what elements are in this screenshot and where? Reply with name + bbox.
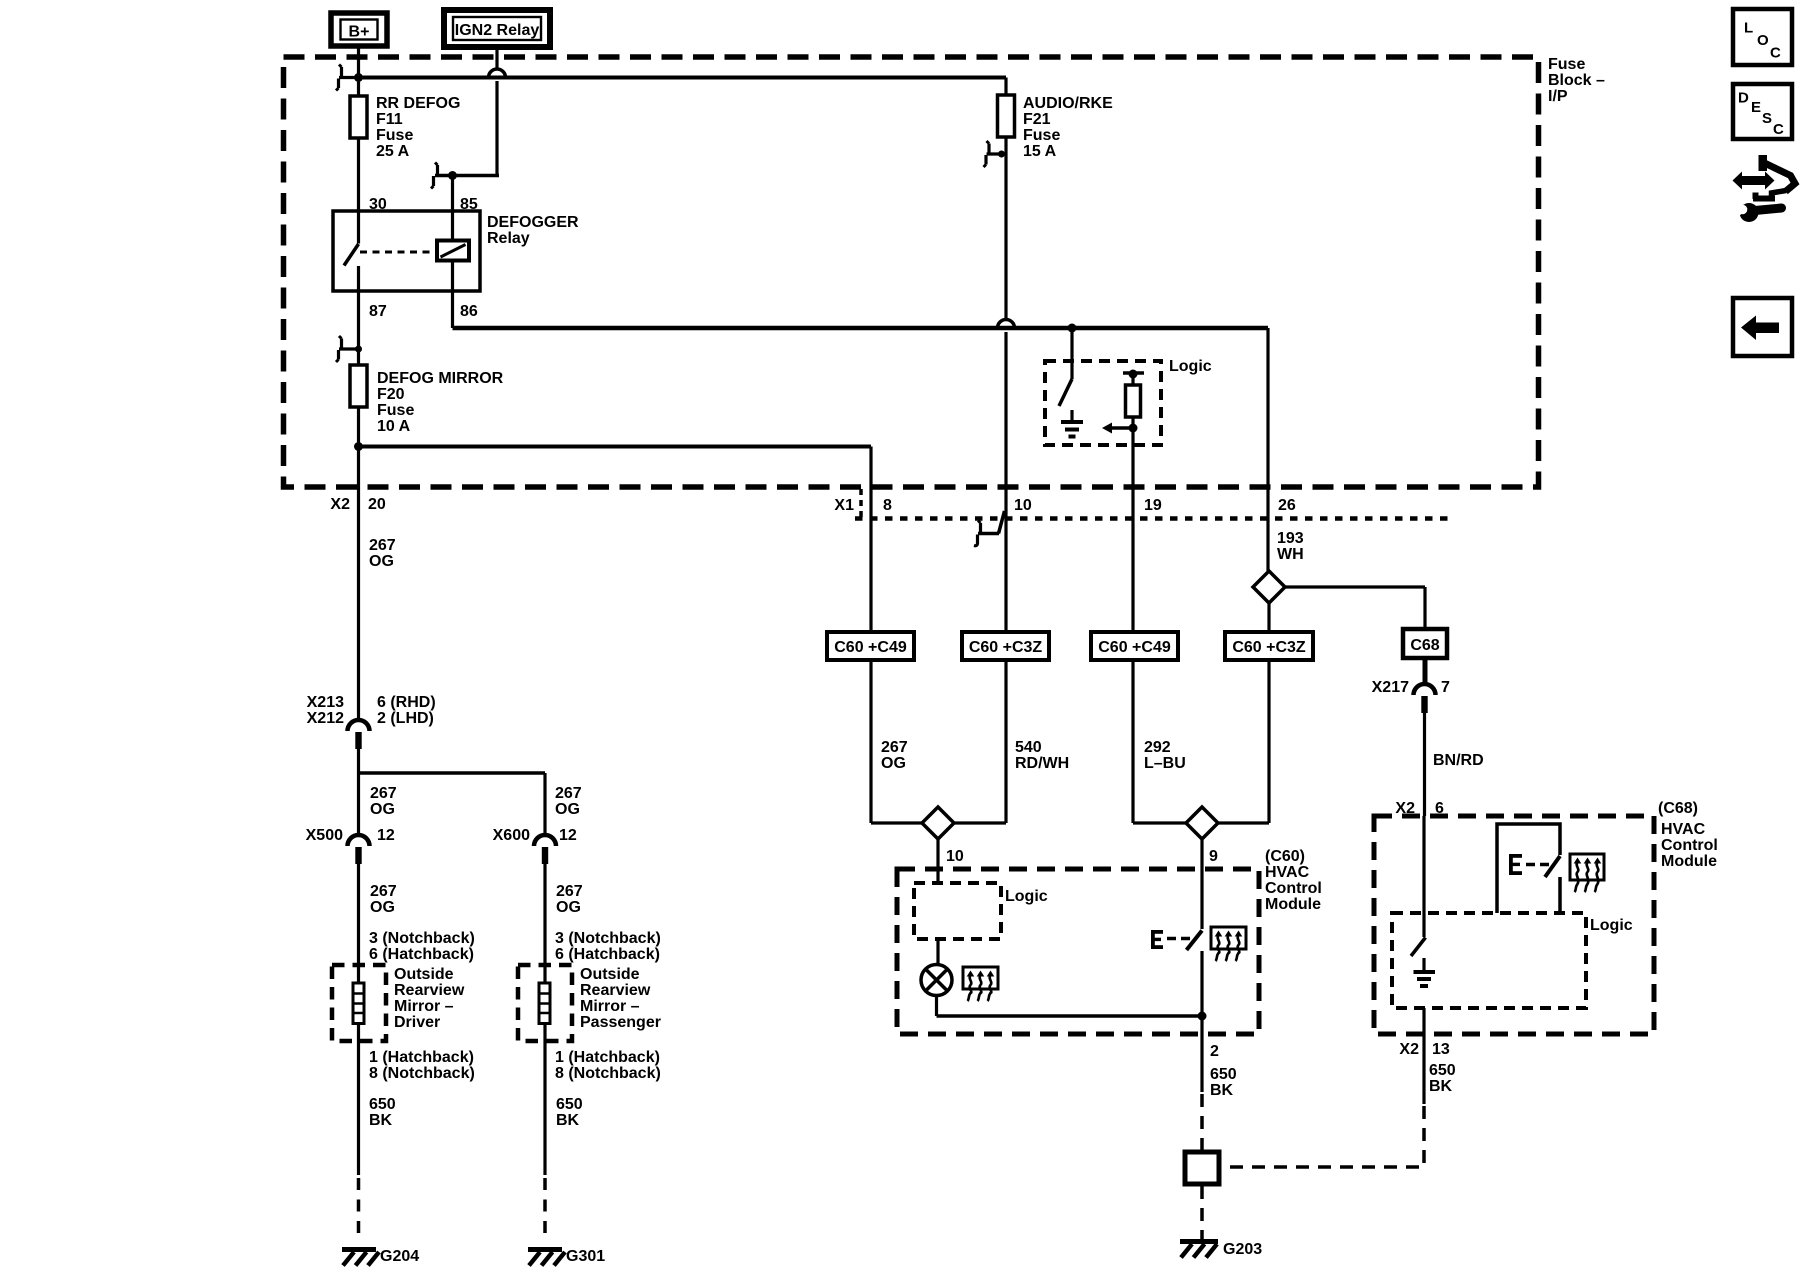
svg-text:C60 +C49: C60 +C49 [834, 639, 907, 656]
svg-text:Fuse: Fuse [377, 402, 414, 419]
svg-text:X600: X600 [493, 827, 530, 844]
svg-text:Block –: Block – [1548, 72, 1605, 89]
svg-text:F11: F11 [376, 111, 403, 128]
svg-text:Rearview: Rearview [394, 982, 465, 999]
svg-text:O: O [1757, 32, 1769, 49]
svg-text:BK: BK [369, 1112, 393, 1129]
svg-text:Fuse: Fuse [1548, 56, 1585, 73]
svg-text:BN/RD: BN/RD [1433, 752, 1484, 769]
svg-text:1 (Hatchback): 1 (Hatchback) [369, 1049, 474, 1066]
svg-text:Module: Module [1265, 896, 1321, 913]
svg-text:6 (Hatchback): 6 (Hatchback) [369, 946, 474, 963]
svg-text:C: C [1773, 121, 1784, 138]
svg-text:6 (Hatchback): 6 (Hatchback) [555, 946, 660, 963]
svg-text:X2: X2 [330, 496, 350, 513]
svg-text:10 A: 10 A [377, 418, 411, 435]
svg-text:Mirror –: Mirror – [394, 998, 454, 1015]
svg-text:OG: OG [555, 801, 580, 818]
svg-text:C68: C68 [1410, 637, 1439, 654]
svg-text:86: 86 [460, 303, 478, 320]
svg-text:267: 267 [370, 883, 397, 900]
svg-text:AUDIO/RKE: AUDIO/RKE [1023, 95, 1113, 112]
svg-text:650: 650 [1429, 1062, 1456, 1079]
svg-text:BK: BK [1210, 1082, 1234, 1099]
svg-text:OG: OG [370, 801, 395, 818]
svg-text:X500: X500 [306, 827, 343, 844]
svg-text:Logic: Logic [1590, 917, 1633, 934]
svg-text:F21: F21 [1023, 111, 1051, 128]
svg-text:BK: BK [556, 1112, 580, 1129]
svg-text:8 (Notchback): 8 (Notchback) [555, 1065, 661, 1082]
svg-text:X1: X1 [834, 497, 854, 514]
svg-text:3 (Notchback): 3 (Notchback) [369, 930, 475, 947]
svg-text:B+: B+ [349, 24, 370, 41]
svg-text:G203: G203 [1223, 1241, 1262, 1258]
svg-text:Rearview: Rearview [580, 982, 651, 999]
svg-text:RD/WH: RD/WH [1015, 755, 1069, 772]
svg-text:Control: Control [1661, 837, 1718, 854]
svg-text:19: 19 [1144, 497, 1162, 514]
svg-text:15 A: 15 A [1023, 143, 1057, 160]
svg-text:RR DEFOG: RR DEFOG [376, 95, 460, 112]
svg-text:(C60): (C60) [1265, 848, 1305, 865]
svg-text:C: C [1770, 45, 1781, 62]
svg-text:Module: Module [1661, 853, 1717, 870]
svg-text:650: 650 [1210, 1066, 1237, 1083]
svg-text:C60 +C3Z: C60 +C3Z [1232, 639, 1306, 656]
svg-text:650: 650 [369, 1096, 396, 1113]
svg-text:Logic: Logic [1169, 358, 1212, 375]
svg-text:X212: X212 [307, 710, 344, 727]
svg-text:292: 292 [1144, 739, 1171, 756]
svg-text:Fuse: Fuse [376, 127, 413, 144]
svg-text:Logic: Logic [1005, 888, 1048, 905]
svg-text:S: S [1762, 110, 1772, 127]
svg-text:12: 12 [377, 827, 395, 844]
svg-text:13: 13 [1432, 1041, 1450, 1058]
svg-text:Relay: Relay [487, 230, 530, 247]
svg-text:8: 8 [883, 497, 892, 514]
svg-text:30: 30 [369, 196, 387, 213]
svg-text:Passenger: Passenger [580, 1014, 661, 1031]
svg-text:7: 7 [1441, 679, 1450, 696]
svg-text:BK: BK [1429, 1078, 1453, 1095]
svg-text:OG: OG [369, 553, 394, 570]
svg-text:C60 +C3Z: C60 +C3Z [969, 639, 1043, 656]
svg-text:HVAC: HVAC [1661, 821, 1706, 838]
svg-text:540: 540 [1015, 739, 1042, 756]
svg-text:25 A: 25 A [376, 143, 410, 160]
svg-text:3 (Notchback): 3 (Notchback) [555, 930, 661, 947]
svg-text:2: 2 [1210, 1043, 1219, 1060]
svg-text:WH: WH [1277, 546, 1304, 563]
svg-text:20: 20 [368, 496, 386, 513]
svg-text:26: 26 [1278, 497, 1296, 514]
svg-text:267: 267 [555, 785, 582, 802]
svg-text:Mirror –: Mirror – [580, 998, 640, 1015]
svg-text:F20: F20 [377, 386, 405, 403]
svg-text:650: 650 [556, 1096, 583, 1113]
svg-text:(C68): (C68) [1658, 800, 1698, 817]
svg-text:L–BU: L–BU [1144, 755, 1186, 772]
svg-text:C60 +C49: C60 +C49 [1098, 639, 1171, 656]
svg-text:OG: OG [556, 899, 581, 916]
svg-text:12: 12 [559, 827, 577, 844]
svg-text:85: 85 [460, 196, 478, 213]
svg-text:6 (RHD): 6 (RHD) [377, 694, 436, 711]
svg-text:G301: G301 [566, 1248, 605, 1265]
svg-text:2 (LHD): 2 (LHD) [377, 710, 434, 727]
svg-text:E: E [1751, 99, 1761, 116]
svg-text:Control: Control [1265, 880, 1322, 897]
svg-text:X2: X2 [1395, 800, 1415, 817]
svg-text:10: 10 [946, 848, 964, 865]
svg-text:X213: X213 [307, 694, 344, 711]
svg-text:6: 6 [1435, 800, 1444, 817]
svg-text:87: 87 [369, 303, 387, 320]
svg-text:HVAC: HVAC [1265, 864, 1310, 881]
svg-text:G204: G204 [380, 1248, 419, 1265]
svg-text:L: L [1744, 20, 1753, 37]
svg-text:I/P: I/P [1548, 88, 1568, 105]
svg-text:267: 267 [369, 537, 396, 554]
svg-text:1 (Hatchback): 1 (Hatchback) [555, 1049, 660, 1066]
svg-text:9: 9 [1209, 848, 1218, 865]
svg-text:267: 267 [881, 739, 908, 756]
svg-text:267: 267 [370, 785, 397, 802]
svg-text:8 (Notchback): 8 (Notchback) [369, 1065, 475, 1082]
svg-text:267: 267 [556, 883, 583, 900]
svg-text:10: 10 [1014, 497, 1032, 514]
svg-text:X217: X217 [1372, 679, 1409, 696]
svg-text:X2: X2 [1399, 1041, 1419, 1058]
svg-text:OG: OG [370, 899, 395, 916]
svg-text:OG: OG [881, 755, 906, 772]
svg-text:Fuse: Fuse [1023, 127, 1060, 144]
svg-text:Driver: Driver [394, 1014, 440, 1031]
svg-text:D: D [1738, 90, 1749, 107]
svg-text:Outside: Outside [394, 966, 454, 983]
svg-text:DEFOG MIRROR: DEFOG MIRROR [377, 370, 504, 387]
svg-text:Outside: Outside [580, 966, 640, 983]
svg-text:DEFOGGER: DEFOGGER [487, 214, 579, 231]
svg-text:193: 193 [1277, 530, 1304, 547]
svg-text:IGN2 Relay: IGN2 Relay [455, 22, 540, 39]
